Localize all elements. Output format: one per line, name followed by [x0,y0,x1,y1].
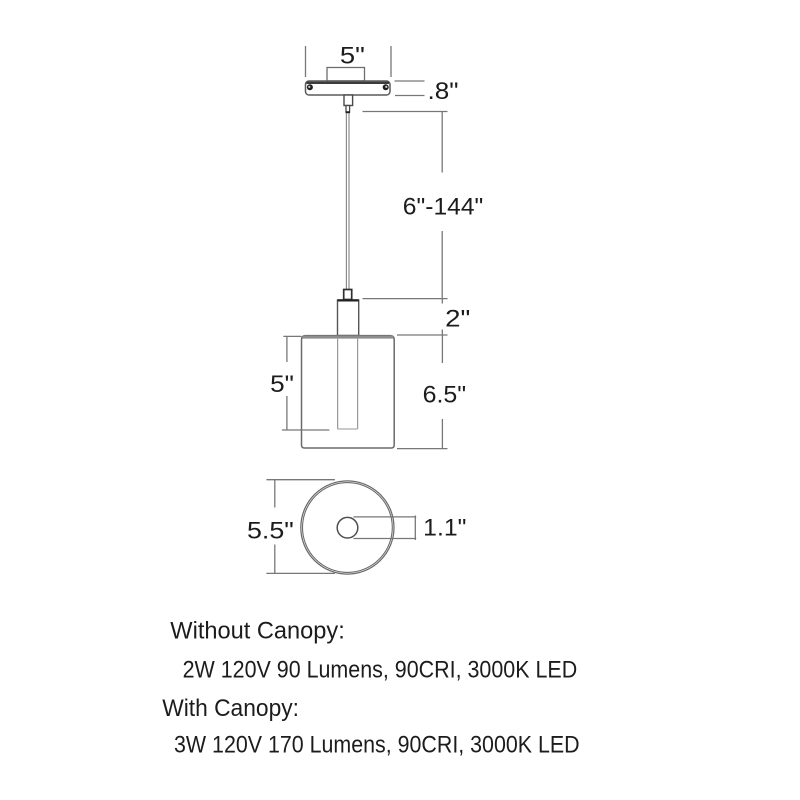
socket top edge [338,299,359,301]
dim 0.8 bottom line [395,95,425,97]
svg-text:.8": .8" [428,78,459,105]
cord connector [344,290,352,300]
shade inner circle (top view) [303,483,393,573]
dim 5.5 bottom tick [266,572,335,574]
lamp tube right [357,339,359,429]
shade top rim [303,336,394,339]
dim 6.5 top tick / shade top tick [397,334,448,336]
shade (elevation) [302,336,395,448]
dim 2 label background [437,304,473,330]
canopy stem [344,95,353,106]
svg-text:6"-144": 6"-144" [403,194,484,221]
junction box [327,68,365,82]
svg-text:1.1": 1.1" [423,515,466,542]
svg-text:Without Canopy:: Without Canopy: [170,617,344,644]
svg-text:3W 120V 170 Lumens, 90CRI, 300: 3W 120V 170 Lumens, 90CRI, 3000K LED [174,732,580,759]
dim 5in canopy ext line right [390,46,392,77]
svg-text:5.5": 5.5" [247,517,294,544]
dim 2 vertical line [441,299,443,335]
lamp tube bottom [338,428,358,430]
svg-text:6.5": 6.5" [423,382,467,409]
dim 5 lamp bottom tick [282,429,330,431]
suspension cord [346,113,349,290]
dim 6-144 bottom tick / socket top tick [363,298,448,300]
svg-text:5": 5" [340,43,365,70]
label 6-144 background [399,173,487,232]
dim 5.5 vertical line [274,480,276,574]
canopy top band [307,82,390,84]
dim 5in canopy ext line left [305,46,307,77]
dim 5 lamp vertical line [286,336,288,430]
svg-text:5": 5" [270,371,294,398]
svg-text:With Canopy:: With Canopy: [162,695,299,722]
canopy plate [306,81,391,95]
canopy screw left [307,84,313,90]
dim 6-144 top tick [363,111,448,113]
dim 1.1 top tangent line [354,516,417,518]
dim 0.8 top line [395,80,425,82]
dim 1.1 vertical tick [414,516,416,541]
label 6.5 background [417,363,470,419]
svg-text:2": 2" [445,306,470,333]
dim 1.1 bottom tangent line [354,538,417,540]
label 5.5 background [244,508,297,545]
lamp tube left [337,339,339,429]
dim 5.5 top tick [266,479,335,481]
socket cylinder [338,300,359,336]
dim 6.5 vertical line [441,335,443,449]
shade outer circle (top view) [301,481,394,574]
svg-text:2W 120V 90 Lumens, 90CRI, 3000: 2W 120V 90 Lumens, 90CRI, 3000K LED [183,656,578,683]
center hole circle [337,517,358,538]
nipple bottom cap [346,111,350,113]
dim 6.5 bottom tick / shade bottom tick [397,448,448,450]
dim 6-144 vertical line [441,112,443,299]
dim 5 lamp top tick [283,335,301,337]
label 5 inch lamp background [266,362,297,396]
stem nipple [346,106,350,113]
canopy screw right [383,84,389,90]
